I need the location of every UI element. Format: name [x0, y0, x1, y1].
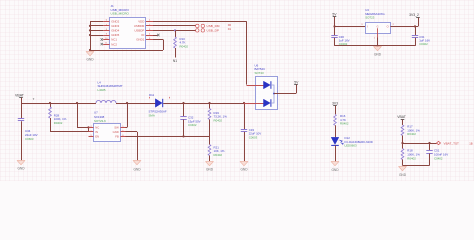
svg-text:VBAT: VBAT — [15, 93, 25, 97]
svg-text:GND3: GND3 — [111, 24, 119, 28]
svg-text:GND4: GND4 — [111, 29, 119, 33]
svg-text:IN: IN — [95, 130, 98, 134]
no-connect NC1 — [101, 38, 103, 40]
svg-text:D11: D11 — [149, 93, 154, 97]
U7 pin 6 FB — [121, 136, 126, 138]
J1 pin 2 USBDM — [146, 25, 153, 27]
U7 pin 3 EN — [89, 136, 94, 138]
svg-text:L4025: L4025 — [98, 88, 106, 92]
svg-text:R0402: R0402 — [214, 153, 223, 157]
junction USB_DP / R10 — [174, 29, 176, 31]
svg-text:R0402: R0402 — [407, 156, 416, 160]
J1 pin 7 GND3 — [103, 25, 109, 27]
ground R21 — [209, 162, 211, 164]
svg-text:C0402: C0402 — [419, 42, 428, 46]
svg-text:5V: 5V — [294, 80, 299, 84]
svg-text:C0402: C0402 — [434, 156, 443, 160]
svg-text:GND: GND — [113, 130, 119, 134]
svg-text:USB_DM: USB_DM — [207, 24, 220, 28]
svg-text:GND: GND — [86, 57, 94, 61]
wire U4 gnd rail — [335, 45, 416, 47]
wire VBAT rail — [21, 103, 96, 105]
junction C32 — [182, 102, 184, 104]
svg-text:D0: D0 — [228, 23, 232, 27]
junction U7 pins tie — [87, 126, 89, 128]
U7 pin 4 NC — [89, 127, 94, 129]
no-connect ID — [157, 34, 159, 36]
IC U7 body — [94, 124, 121, 142]
wire SW to rail — [126, 127, 128, 129]
wire U4 out — [390, 26, 418, 28]
ground J1 — [90, 52, 92, 54]
junction C32/FB — [182, 135, 184, 137]
svg-text:ID: ID — [141, 33, 144, 37]
svg-text:GND: GND — [206, 167, 214, 171]
svg-text:C0402: C0402 — [188, 123, 197, 127]
svg-text:GND: GND — [374, 53, 382, 57]
svg-text:R0402: R0402 — [340, 122, 349, 126]
svg-text:VBAT_TST: VBAT_TST — [444, 141, 460, 145]
svg-text:3V3_2: 3V3_2 — [409, 13, 419, 17]
wire GND2..GND5 bus to ground — [90, 21, 103, 23]
svg-text:SMA: SMA — [149, 113, 155, 117]
svg-text:GND1: GND1 — [136, 38, 144, 42]
capacitor C30 — [334, 26, 336, 35]
svg-text:1B: 1B — [469, 141, 472, 145]
junction EN — [76, 102, 78, 104]
svg-text:GND: GND — [331, 168, 339, 172]
ground D12 — [335, 162, 337, 164]
svg-text:GND2: GND2 — [111, 20, 119, 24]
net port USB_DM — [196, 24, 199, 27]
LED D12 — [331, 137, 339, 144]
svg-text:FB: FB — [115, 135, 119, 139]
J1 pin 10 NC1 — [103, 39, 109, 41]
wire U6 out 5V — [274, 93, 296, 95]
svg-text:GND5: GND5 — [111, 33, 119, 37]
svg-text:GND: GND — [240, 167, 248, 171]
svg-text:SW: SW — [114, 126, 119, 130]
J1 pin 6 GND2 — [103, 21, 109, 23]
svg-text:R0402: R0402 — [407, 132, 416, 136]
ground R18/C51 — [402, 167, 404, 169]
svg-text:SOT23: SOT23 — [365, 15, 375, 19]
junction VBAT_TST — [401, 142, 403, 144]
wire C51 to gnd rail — [403, 165, 430, 167]
wire U7 GND — [126, 131, 138, 133]
ground U4 — [377, 47, 379, 49]
junction R19 — [208, 102, 210, 104]
svg-text:LED0603: LED0603 — [345, 144, 357, 148]
svg-text:5V: 5V — [332, 12, 337, 16]
wire USB_DP — [153, 30, 196, 32]
wire VDD to U6 — [153, 21, 247, 23]
wire GND1 loop — [153, 39, 163, 41]
svg-text:G: G — [377, 25, 379, 28]
U6 cathode join — [271, 85, 274, 103]
svg-text:SOT23-6: SOT23-6 — [94, 119, 106, 123]
resistor R18 — [401, 149, 404, 160]
capacitor C51 — [429, 143, 431, 151]
wire USB_DM — [153, 25, 196, 27]
IC U4 body — [366, 23, 391, 34]
svg-text:GND: GND — [399, 173, 407, 177]
svg-text:USB_MICRO: USB_MICRO — [111, 12, 130, 16]
svg-text:NC: NC — [95, 126, 99, 130]
wire EN drop — [77, 103, 79, 127]
resistor R28 — [50, 103, 52, 107]
svg-text:C0603: C0603 — [249, 136, 258, 140]
svg-text:R0402: R0402 — [54, 121, 63, 125]
U6 diode B (from boost) — [244, 103, 264, 105]
svg-text:O: O — [387, 25, 389, 29]
J1 pin 8 GND4 — [103, 30, 109, 32]
junction C33/U6 — [243, 102, 245, 104]
svg-text:USBDM: USBDM — [134, 24, 145, 28]
IC U6 body — [256, 77, 278, 110]
svg-text:C0603: C0603 — [25, 137, 34, 141]
svg-text:VDD: VDD — [138, 20, 144, 24]
junction R28 — [49, 102, 51, 104]
resistor R10 — [175, 30, 177, 37]
J1 pin 3 USBDP — [146, 30, 153, 32]
net port VBAT_TST — [437, 141, 441, 144]
net port USB_DP — [196, 29, 199, 32]
svg-text:EN: EN — [95, 135, 99, 139]
svg-text:NC2: NC2 — [111, 42, 117, 46]
J1 pin 5 GND1 — [146, 39, 153, 41]
svg-text:N1: N1 — [173, 59, 177, 63]
wire LED to gnd — [335, 145, 337, 161]
capacitor C32 — [183, 103, 185, 117]
svg-text:SOT23: SOT23 — [255, 71, 265, 75]
U6 diode A (from USB VDD) — [247, 85, 264, 87]
J1 pin 9 GND5 — [103, 35, 109, 37]
capacitor C33 — [244, 103, 246, 129]
svg-text:USBDP: USBDP — [134, 29, 144, 33]
no-connect NC2 — [101, 43, 103, 45]
capacitor C34 — [21, 103, 23, 118]
wire ID — [153, 35, 158, 37]
svg-text:R0402: R0402 — [214, 119, 223, 123]
svg-text:3V3: 3V3 — [332, 102, 338, 106]
J1 pin 1 VDD — [146, 21, 153, 23]
resistor R16 — [334, 114, 337, 125]
ground U7 — [137, 161, 139, 163]
ground C34 — [21, 161, 23, 163]
svg-text:VBAT: VBAT — [397, 115, 406, 119]
svg-text:R0402: R0402 — [180, 45, 189, 49]
resistor R21 — [209, 136, 211, 144]
resistor R17 — [401, 125, 404, 136]
svg-text:GND: GND — [17, 167, 25, 171]
wire 5V to U4 — [335, 26, 366, 28]
wire FB net — [126, 136, 210, 138]
svg-text:NC1: NC1 — [111, 38, 117, 42]
J1 pin 4 ID — [146, 35, 153, 37]
U7 pin 2 IN — [89, 131, 94, 133]
capacitor C31 — [415, 26, 417, 35]
ground C33 — [244, 162, 246, 164]
connector J1 body — [110, 18, 146, 49]
J1 pin 11 NC2 — [103, 44, 109, 46]
wire VBAT_TST — [403, 143, 437, 145]
svg-text:D1: D1 — [228, 27, 232, 31]
U7 pin 5 GND — [121, 131, 126, 133]
svg-text:USB_DP: USB_DP — [207, 29, 219, 33]
U7 pin 1 SW — [121, 127, 126, 129]
svg-text:GND: GND — [133, 168, 141, 172]
resistor R19 — [209, 103, 211, 109]
junction SW — [126, 102, 128, 104]
